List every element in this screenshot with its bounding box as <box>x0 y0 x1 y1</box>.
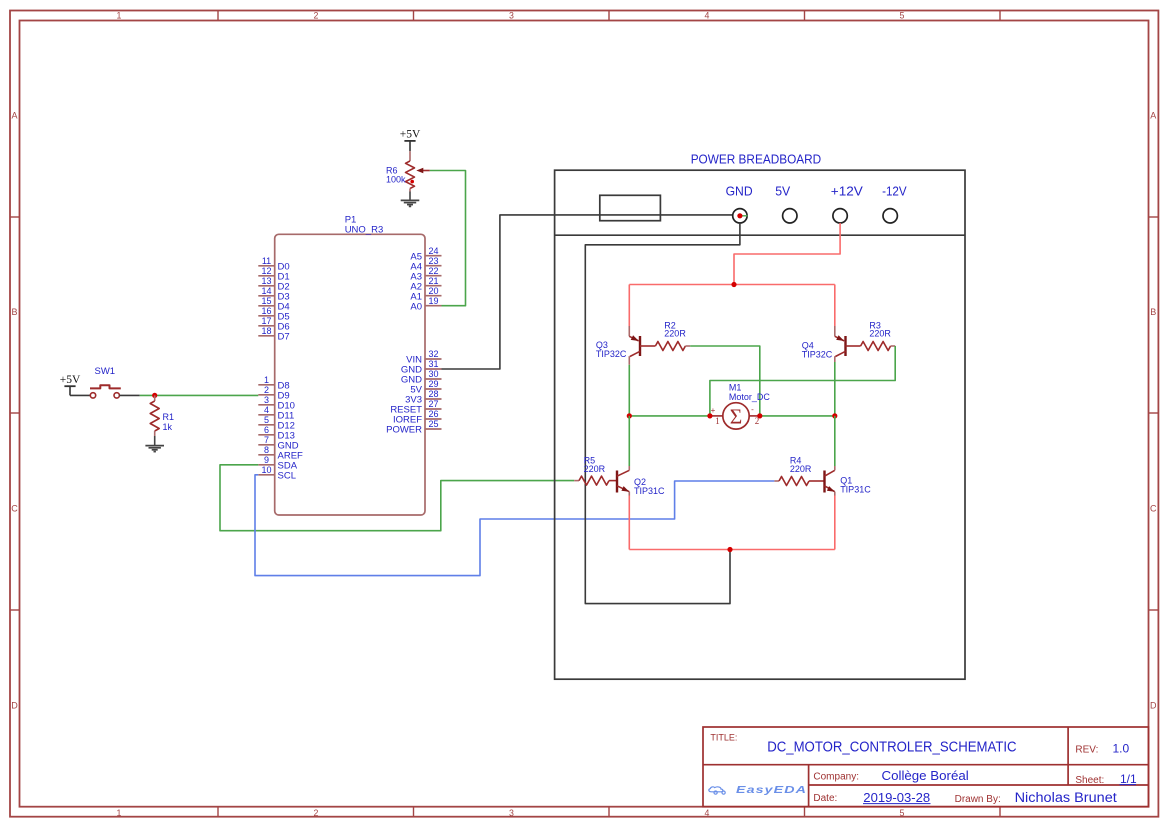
svg-text:30: 30 <box>428 369 438 379</box>
transistor Q3 (PNP TIP32C) <box>629 326 655 365</box>
svg-text:5: 5 <box>264 415 269 425</box>
junction at GND terminal <box>737 213 742 218</box>
svg-text:13: 13 <box>261 276 271 286</box>
svg-text:TIP32C: TIP32C <box>596 349 627 359</box>
ground (R6) <box>401 192 420 207</box>
label Q1 TIP31C <box>840 475 871 494</box>
svg-text:2: 2 <box>314 10 319 20</box>
pin 11 (D0) <box>258 256 289 272</box>
terminal GND <box>726 184 753 223</box>
svg-text:-: - <box>751 405 754 414</box>
svg-text:TIP31C: TIP31C <box>634 486 665 496</box>
transistor Q4 (PNP TIP32C) <box>835 326 861 362</box>
svg-text:2: 2 <box>264 385 269 395</box>
svg-text:2019-03-28: 2019-03-28 <box>863 790 930 805</box>
svg-text:12: 12 <box>261 266 271 276</box>
wire R3 to motor node 1 (green) <box>710 346 895 416</box>
svg-text:3: 3 <box>509 10 514 20</box>
svg-text:4: 4 <box>705 10 710 20</box>
label Q4 TIP32C <box>802 341 833 360</box>
svg-text:B: B <box>1150 307 1156 317</box>
label P1 UNO_R3 <box>345 215 384 236</box>
ground (R1) <box>145 436 164 452</box>
wire motor line right (green) <box>760 415 835 417</box>
pin 15 (D4) <box>258 296 289 312</box>
pin 22 (A3) <box>410 266 441 282</box>
pin 20 (A1) <box>410 286 441 302</box>
svg-text:Motor_DC: Motor_DC <box>729 392 771 402</box>
pin 17 (D6) <box>258 316 289 332</box>
svg-text:29: 29 <box>428 379 438 389</box>
svg-text:-12V: -12V <box>882 184 907 198</box>
svg-text:EasyEDA: EasyEDA <box>736 785 807 796</box>
svg-text:5: 5 <box>900 10 905 20</box>
svg-text:R1: R1 <box>163 412 175 422</box>
pin 29 (5V) <box>410 379 441 395</box>
green stub at GND terminal <box>741 215 748 217</box>
svg-text:SCL: SCL <box>278 470 296 481</box>
svg-text:D7: D7 <box>278 331 290 342</box>
svg-text:23: 23 <box>428 256 438 266</box>
wire Q2 emitter down (red) <box>628 496 630 550</box>
label Q2 TIP31C <box>634 477 665 496</box>
breadboard box <box>555 170 965 679</box>
wire SDA to R5 (green) <box>220 465 574 531</box>
svg-text:Σ: Σ <box>730 404 743 428</box>
svg-text:19: 19 <box>428 296 438 306</box>
svg-text:2: 2 <box>314 808 319 818</box>
pin 8 (AREF) <box>258 445 303 461</box>
pin 2 (D9) <box>258 385 289 401</box>
wire rail to Q4 emitter (red) <box>834 285 836 327</box>
wire R6 wiper to A0 (green) <box>430 171 466 306</box>
svg-text:100k: 100k <box>386 174 406 184</box>
motor M1 <box>710 403 760 429</box>
pin 9 (SDA) <box>258 455 297 471</box>
svg-text:3: 3 <box>264 395 269 405</box>
pin 14 (D3) <box>258 286 289 302</box>
svg-text:1: 1 <box>117 808 122 818</box>
svg-text:9: 9 <box>264 455 269 465</box>
wire node to D9 (green) <box>140 394 259 396</box>
svg-text:SW1: SW1 <box>95 366 116 377</box>
pin 26 (IOREF) <box>393 409 442 425</box>
svg-text:7: 7 <box>264 435 269 445</box>
pin 6 (D13) <box>258 425 295 441</box>
resistor R3 <box>861 342 896 351</box>
svg-text:POWER: POWER <box>386 425 422 436</box>
power +5V (SW1) <box>60 374 81 395</box>
pin 10 (SCL) <box>258 465 296 481</box>
wire Q4 collector to motor node 2 (green) <box>834 362 836 416</box>
pin 32 (VIN) <box>406 349 441 365</box>
label R3 220R <box>869 320 891 338</box>
power +5V (R6) <box>400 129 421 152</box>
pin 1 (D8) <box>258 375 289 391</box>
wire emitter rail (red) <box>629 549 835 551</box>
svg-text:31: 31 <box>428 359 438 369</box>
svg-text:24: 24 <box>428 246 438 256</box>
wire +5V to SW1 (black) <box>70 394 90 396</box>
svg-text:Company:: Company: <box>813 772 859 783</box>
wire Q1 emitter down (red) <box>834 496 836 550</box>
label Q3 TIP32C <box>596 340 627 359</box>
pin 31 (GND) <box>401 359 442 375</box>
svg-text:D: D <box>11 700 18 710</box>
pin 21 (A2) <box>410 276 441 292</box>
pin 25 (POWER) <box>386 419 441 435</box>
svg-text:1/1: 1/1 <box>1120 772 1137 786</box>
svg-text:6: 6 <box>264 425 269 435</box>
svg-text:5: 5 <box>900 808 905 818</box>
title block <box>703 727 1149 807</box>
svg-text:5V: 5V <box>775 184 791 198</box>
svg-text:D: D <box>1150 700 1157 710</box>
svg-text:11: 11 <box>262 256 271 266</box>
switch SW1 <box>90 385 121 398</box>
svg-text:16: 16 <box>261 306 271 316</box>
junction motor right rail <box>832 413 837 418</box>
wire Q1 collector up (green) <box>834 416 836 466</box>
svg-text:220R: 220R <box>790 464 812 474</box>
svg-text:10: 10 <box>261 465 271 475</box>
fuse/connector block <box>600 195 661 220</box>
label M1 Motor_DC <box>729 383 771 402</box>
svg-text:Nicholas Brunet: Nicholas Brunet <box>1015 790 1117 805</box>
svg-text:DC_MOTOR_CONTROLER_SCHEMATIC: DC_MOTOR_CONTROLER_SCHEMATIC <box>767 739 1016 755</box>
pin 18 (D7) <box>258 326 289 342</box>
resistor R5 <box>574 476 617 485</box>
terminal +12V <box>831 184 864 223</box>
date <box>813 790 930 805</box>
pin 12 (D1) <box>258 266 289 282</box>
wire +12V net (red) <box>734 223 840 285</box>
svg-text:4: 4 <box>264 405 269 415</box>
resistor R2 <box>655 342 690 351</box>
svg-text:POWER BREADBOARD: POWER BREADBOARD <box>691 153 822 167</box>
pin 5 (D12) <box>258 415 295 431</box>
svg-text:18: 18 <box>261 326 271 336</box>
company <box>813 768 968 783</box>
resistor R6 (trimmer) <box>406 151 430 191</box>
label R1 1k <box>163 412 175 432</box>
wire GND net (black) <box>585 223 740 604</box>
svg-text:A: A <box>1150 111 1156 121</box>
motor pin marks + - 1 2 <box>711 405 760 426</box>
terminal 5V <box>775 184 797 223</box>
svg-text:C: C <box>1150 504 1157 514</box>
wire motor line (green) <box>629 415 710 417</box>
svg-text:C: C <box>11 504 18 514</box>
transistor Q2 (NPN TIP31C) <box>617 466 629 496</box>
junction motor node 2 <box>757 413 762 418</box>
component P1 UNO_R3 body <box>275 234 425 515</box>
title text <box>710 732 1016 755</box>
label R6 100k <box>386 165 406 184</box>
wire SCL to R4 (blue) <box>255 475 774 576</box>
svg-text:28: 28 <box>428 389 438 399</box>
svg-text:B: B <box>11 307 17 317</box>
svg-text:20: 20 <box>428 286 438 296</box>
junction +12V rail <box>731 282 736 287</box>
pin 23 (A4) <box>410 256 441 272</box>
wire GND pin31 to breadboard GND (black) <box>442 215 733 369</box>
pin 27 (RESET) <box>390 399 441 415</box>
svg-text:TIP32C: TIP32C <box>802 349 833 359</box>
EasyEDA logo <box>709 785 807 796</box>
junction motor left rail <box>627 413 632 418</box>
resistor R1 <box>150 395 159 436</box>
svg-text:TIP31C: TIP31C <box>840 485 871 495</box>
pin 28 (3V3) <box>405 389 441 405</box>
svg-text:A: A <box>11 111 17 121</box>
pin 4 (D11) <box>258 405 294 421</box>
svg-text:220R: 220R <box>584 464 606 474</box>
svg-text:GND: GND <box>726 184 753 198</box>
svg-text:3: 3 <box>509 808 514 818</box>
wire rail to Q3 emitter (red) <box>628 285 630 327</box>
svg-text:32: 32 <box>428 349 438 359</box>
svg-text:22: 22 <box>428 266 438 276</box>
wire Q3 collector to motor node 1 (green) <box>628 365 630 416</box>
pin 30 (GND) <box>401 369 442 385</box>
svg-text:21: 21 <box>428 276 438 286</box>
svg-text:25: 25 <box>428 419 438 429</box>
svg-text:A0: A0 <box>410 301 422 312</box>
svg-text:1: 1 <box>264 375 269 385</box>
svg-text:Drawn By:: Drawn By: <box>955 794 1001 805</box>
pin 16 (D5) <box>258 306 289 322</box>
pin 19 (A0) <box>410 296 441 312</box>
junction motor node 1 <box>707 413 712 418</box>
wire R2 to motor node 2 (green) <box>690 346 760 416</box>
wire SW1 to node (black) <box>119 394 139 396</box>
junction emitter rail <box>727 547 732 552</box>
pin 7 (GND) <box>258 435 298 451</box>
resistor R4 <box>774 477 824 486</box>
label R4 220R <box>790 455 812 474</box>
svg-text:+12V: +12V <box>831 184 864 198</box>
svg-text:17: 17 <box>261 316 271 326</box>
pin 13 (D2) <box>258 276 289 292</box>
svg-text:Date:: Date: <box>813 793 837 804</box>
svg-text:+5V: +5V <box>400 129 421 141</box>
svg-text:+: + <box>711 406 716 415</box>
svg-text:4: 4 <box>705 808 710 818</box>
svg-text:TITLE:: TITLE: <box>710 732 737 742</box>
wire Q2 collector up (green) <box>628 416 630 466</box>
svg-text:1: 1 <box>715 416 720 426</box>
pin 3 (D10) <box>258 395 295 411</box>
svg-text:27: 27 <box>428 399 438 409</box>
label R5 220R <box>584 455 606 474</box>
svg-text:220R: 220R <box>664 329 686 339</box>
wire +12V rail (red) <box>629 284 835 286</box>
svg-text:REV:: REV: <box>1075 745 1098 756</box>
label R2 220R <box>664 320 686 338</box>
svg-text:UNO_R3: UNO_R3 <box>345 225 384 236</box>
junction (SW1/R1/D9) <box>152 393 157 398</box>
svg-text:8: 8 <box>264 445 269 455</box>
svg-text:Sheet:: Sheet: <box>1075 775 1104 786</box>
svg-text:26: 26 <box>428 409 438 419</box>
rev <box>1075 742 1129 756</box>
svg-text:1.0: 1.0 <box>1113 742 1130 756</box>
svg-text:1k: 1k <box>163 422 173 432</box>
drawn by <box>955 790 1117 805</box>
terminal -12V <box>882 184 907 223</box>
svg-text:14: 14 <box>261 286 271 296</box>
transistor Q1 (NPN TIP31C) <box>825 466 835 496</box>
svg-text:Collège Boréal: Collège Boréal <box>882 768 969 783</box>
svg-text:1: 1 <box>117 10 122 20</box>
pin 24 (A5) <box>410 246 441 262</box>
sheet <box>1075 772 1137 786</box>
svg-text:15: 15 <box>261 296 271 306</box>
svg-text:220R: 220R <box>869 329 891 339</box>
svg-text:+5V: +5V <box>60 374 81 386</box>
